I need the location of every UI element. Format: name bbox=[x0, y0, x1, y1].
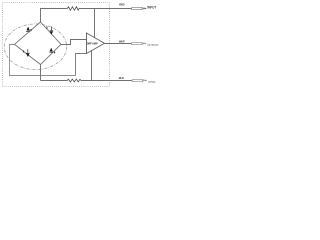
diode CR1 (top-left arm) bbox=[26, 27, 32, 33]
wire top rail from bridge top node up and right to input connector bbox=[41, 9, 67, 23]
svg-text:DIFF AMP: DIFF AMP bbox=[87, 42, 98, 46]
shield ellipse (dash-dot probe enclosure) bbox=[4, 24, 66, 70]
connector P2 (output plug) bbox=[132, 42, 144, 44]
wire bridge left node to lower op-amp input (left, down, along bottom) bbox=[10, 45, 76, 76]
svg-text:BLK: BLK bbox=[119, 76, 124, 80]
wire junction drop to op-amp noninverting input bbox=[94, 9, 96, 39]
wire op-amp output to output connector bbox=[105, 43, 132, 45]
wire bridge right node to op-amp upper input bbox=[61, 40, 87, 45]
svg-text:INPUT: INPUT bbox=[147, 6, 156, 10]
connector P3 (sync plug) bbox=[132, 79, 144, 81]
arrowhead sync bbox=[145, 80, 147, 82]
svg-text:SYNC: SYNC bbox=[148, 80, 157, 84]
svg-text:WHT: WHT bbox=[119, 40, 125, 44]
wire bridge bottom node down to bottom rail bbox=[40, 65, 42, 81]
resistor R1 (top, in input line) bbox=[67, 7, 80, 11]
connector P1 (input plug) bbox=[132, 7, 144, 9]
diode CR2 (top-right arm) bbox=[46, 27, 53, 35]
op-amp U1 DIFF AMP triangle bbox=[87, 33, 105, 54]
svg-text:OUTPUT: OUTPUT bbox=[147, 43, 159, 47]
diode CR3 (bottom-left arm) bbox=[23, 49, 30, 57]
diode CR4 (bottom-right arm) bbox=[50, 48, 56, 55]
arrowhead input bbox=[145, 8, 147, 10]
bottom rail wire to sync connector bbox=[41, 80, 67, 82]
arrowhead output bbox=[145, 43, 147, 45]
wire op-amp underside to bottom rail bbox=[91, 50, 93, 81]
dotted enclosure border bbox=[3, 3, 110, 87]
wire up to op-amp inverting input bbox=[76, 54, 87, 76]
resistor R2 (bottom rail) bbox=[67, 79, 82, 82]
diode bridge diamond wires bbox=[15, 22, 62, 65]
svg-text:RED: RED bbox=[119, 3, 124, 7]
